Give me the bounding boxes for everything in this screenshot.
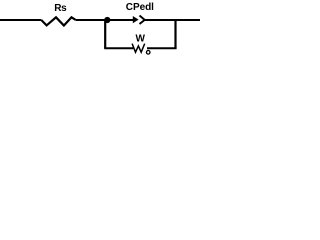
svg-text:CPedl: CPedl — [126, 2, 154, 13]
svg-text:W: W — [136, 34, 146, 45]
svg-text:Rs: Rs — [54, 3, 67, 14]
